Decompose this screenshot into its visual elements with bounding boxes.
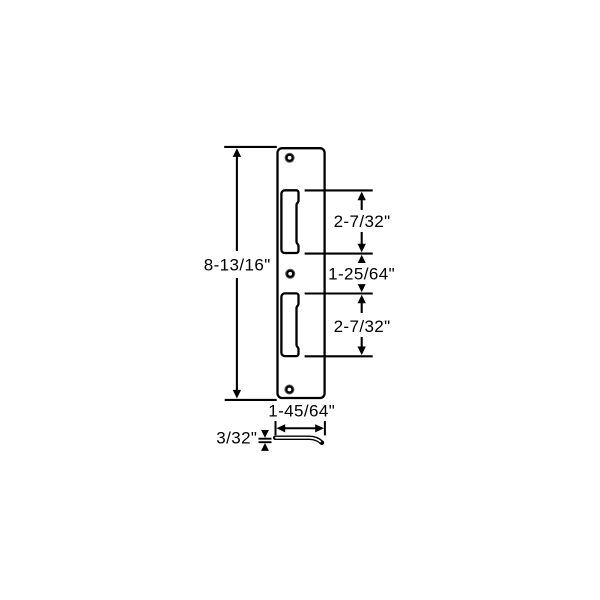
extension line: bottom of upper slot [305, 253, 373, 255]
svg-text:1-45/64": 1-45/64" [268, 401, 335, 420]
extension tick right (1-45/64) [324, 421, 326, 435]
thickness arrow above (3/32) [261, 430, 269, 438]
dimension 2-7/32 lower: arrowheads [358, 295, 366, 304]
extension line: bottom of plate (8-13/16) [225, 399, 277, 401]
dimension 8-13/16: vertical line segments [236, 153, 238, 251]
strike plate outline [278, 148, 325, 398]
upper latch slot [281, 190, 298, 253]
lower latch slot [281, 293, 298, 356]
svg-text:3/32": 3/32" [216, 428, 257, 447]
svg-text:2-7/32": 2-7/32" [334, 317, 391, 336]
thickness tick top (3/32) [259, 438, 272, 440]
dimension 1-25/64: arrowheads [358, 255, 366, 263]
thickness tick bottom (3/32) [259, 441, 272, 443]
svg-text:1-25/64": 1-25/64" [328, 265, 395, 284]
dimension 1-45/64: horizontal line with outward arrowheads [283, 427, 318, 429]
svg-text:2-7/32": 2-7/32" [334, 212, 391, 231]
dimension 8-13/16: arrowheads [233, 148, 241, 157]
extension line: top of plate (8-13/16) [224, 146, 277, 148]
bottom screw hole [284, 385, 294, 395]
dimension 2-7/32 upper: vertical line segments [361, 196, 363, 210]
extension tick left (1-45/64) [275, 421, 277, 435]
thickness arrow below (3/32) [261, 443, 269, 451]
dimension 2-7/32 lower: vertical line segments [361, 299, 363, 313]
extension line: bottom of lower slot [305, 355, 373, 357]
svg-text:8-13/16": 8-13/16" [204, 256, 271, 275]
extension line: top of upper slot [305, 189, 373, 191]
middle screw hole [285, 269, 295, 279]
dimension 2-7/32 upper: arrowheads [358, 192, 366, 201]
extension line: top of lower slot [305, 292, 373, 294]
top screw hole [285, 153, 295, 163]
side profile of plate (thin bar with curved lip) [275, 438, 322, 443]
